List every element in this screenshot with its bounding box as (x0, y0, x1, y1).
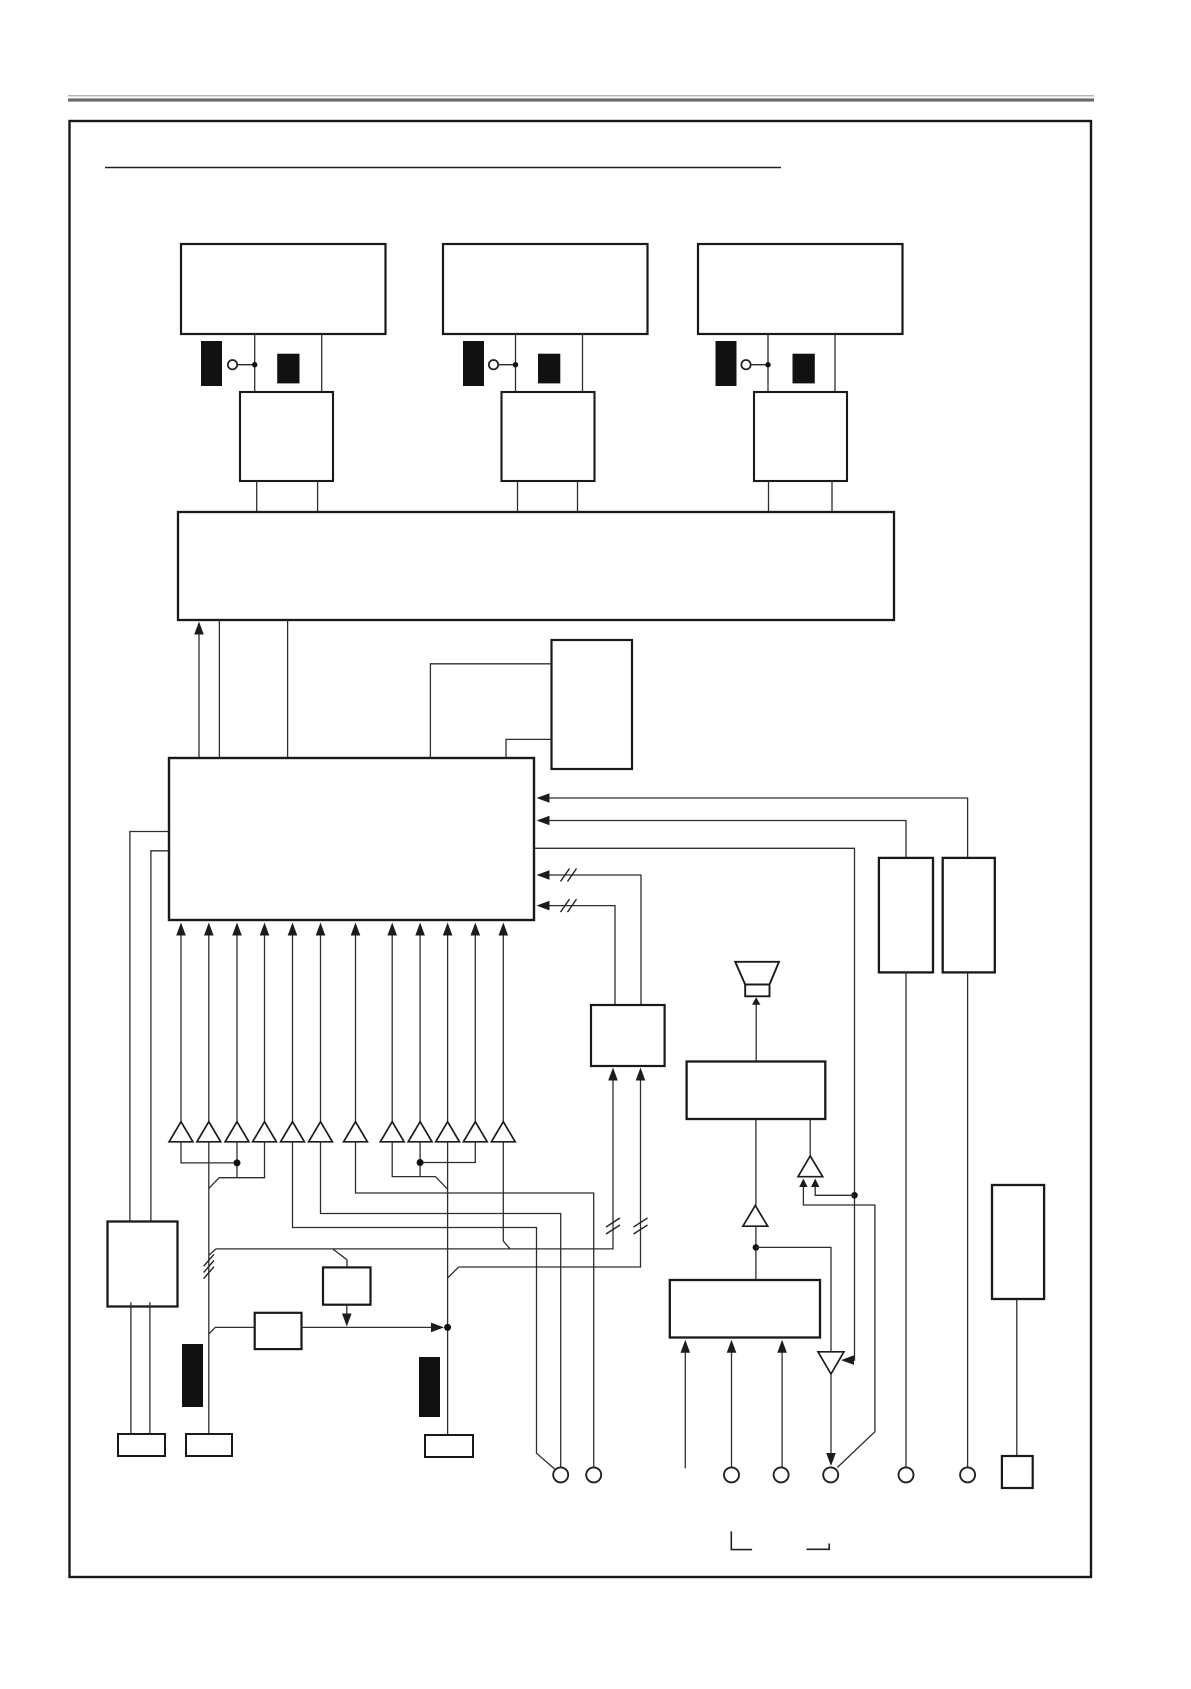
wire row A (T7 to connector circle 2) (356, 1142, 594, 1468)
connector M2 right (filled) (538, 354, 560, 384)
connector circle 7 (960, 1467, 975, 1482)
wire left box down b (149, 1302, 151, 1434)
speaker horn (735, 962, 779, 985)
switch M2 lever wire (498, 364, 513, 366)
wire key column 4 (264, 935, 266, 1122)
header rule thin (68, 95, 1094, 97)
wire T4 jog to T2 column (209, 1142, 265, 1189)
wire V1 down arrow (346, 1305, 348, 1315)
wire M1 mid-right (317, 481, 319, 512)
wire tall A to circle 6 (905, 972, 907, 1467)
wire RB to square terminal (1016, 1299, 1018, 1456)
wire arrow into speaker (755, 1004, 757, 1062)
wire row D (to encoder bottom left arrow) (216, 1081, 613, 1249)
wire amp to buffer U3 (809, 1119, 811, 1156)
switch M3 junction dot (765, 362, 770, 367)
wire T3 down (236, 1142, 238, 1178)
connector circle 5 (823, 1467, 838, 1482)
switch M1 junction dot (252, 362, 257, 367)
block bus (mechanism interface) (178, 512, 894, 620)
connector circle 4 (774, 1467, 789, 1482)
wire B1 input 2 from circle (731, 1353, 733, 1468)
wire bus-ctl b (218, 620, 220, 758)
wire left box down a (130, 1302, 132, 1434)
wire M3 mid-right (831, 481, 833, 512)
buffer T1 (169, 1122, 193, 1142)
bus slash R5 (561, 899, 570, 912)
switch M1 contact circle (228, 360, 237, 369)
wire R2 from tall box A top, arrow into control (548, 821, 906, 858)
bus slash x3 on T2 column (204, 1254, 214, 1266)
wire row D branch into V1 (333, 1249, 347, 1268)
block M1 top (mechanism 1) (181, 244, 386, 334)
connector M1 right (filled) (277, 354, 299, 384)
wire T9 down (419, 1142, 421, 1177)
wire key column 5 (292, 935, 294, 1122)
block left (108, 1222, 178, 1307)
wire K-ctl a (430, 664, 551, 758)
block M1 mid (240, 392, 333, 481)
wire T12 column jog into row D (503, 1142, 510, 1249)
wire amp to buffer U2 (755, 1119, 757, 1205)
U3 input arrow left (799, 1179, 807, 1188)
U3 input arrow right (811, 1179, 819, 1188)
block M3 top (mechanism 3) (698, 244, 903, 334)
wire T1 to junction (181, 1142, 234, 1163)
speaker body (745, 985, 769, 997)
block M2 top (mechanism 2) (443, 244, 648, 334)
wire M2 mid-right (577, 481, 579, 512)
wire M1 top-right (321, 334, 323, 392)
wire K-ctl b (506, 739, 552, 758)
wire junction to inverter U4 (756, 1247, 831, 1351)
buffer T10 (436, 1122, 460, 1142)
connector circle 3 (724, 1467, 739, 1482)
wire row E (to encoder bottom right arrow) (459, 1081, 641, 1268)
buffer T9 (408, 1122, 432, 1142)
inverter U4 (points down) (818, 1352, 844, 1374)
terminal block 3 (425, 1435, 473, 1457)
wire key column 8 (391, 935, 393, 1122)
wire key column 2 (208, 935, 210, 1122)
wire key column 10 (447, 935, 449, 1122)
switch M3 lever wire (751, 364, 766, 366)
wire key column 9 (419, 935, 421, 1122)
wire T2 column down to terminal 2 (208, 1142, 210, 1434)
wire key column 11 (474, 935, 476, 1122)
connector M3 right (filled) (793, 354, 815, 384)
terminal block 2 (186, 1434, 232, 1456)
connector M2 left (filled) (463, 341, 484, 386)
block V2 (255, 1313, 302, 1349)
wire key column 6 (320, 935, 322, 1122)
wire T11 to junction (423, 1142, 475, 1163)
bus slash on row D riser (606, 1218, 620, 1227)
wire row B (T6 to connector circle 1) (321, 1142, 561, 1468)
wire tall B to circle 7 (967, 972, 969, 1467)
wire U3 right input from R3 dot (815, 1187, 854, 1196)
wire B1 input 1 (684, 1353, 686, 1469)
wire ctl-left b (151, 851, 169, 1221)
block tall A (879, 858, 933, 973)
connector M3 left (filled) (716, 341, 737, 386)
wire jog from T2 column into V2 (209, 1327, 255, 1334)
block K (display) (552, 640, 633, 769)
wire M1 top-left (254, 334, 256, 392)
wire V2 output arrow to T10 column (302, 1326, 432, 1328)
wire M3 top-right (834, 334, 836, 392)
connector C (filled) (182, 1344, 203, 1407)
wire row D jog left onto T2 column (209, 1249, 216, 1256)
wire bus-ctl arrow up (198, 634, 200, 758)
title underline (105, 167, 781, 169)
wire M2 top-right (582, 334, 584, 392)
wire M3 top-left (767, 334, 769, 392)
page border (70, 121, 1092, 1577)
connector circle 1 (553, 1467, 568, 1482)
wire row C (T5, diagonal into circle 1) (293, 1142, 555, 1469)
buffer T12 (491, 1122, 515, 1142)
wire key column 1 (180, 935, 182, 1122)
wire R5 bus from encoder, arrow into control (548, 906, 615, 1005)
buffer T7 (344, 1122, 368, 1142)
block B1 (670, 1280, 820, 1338)
wire T8 jog to T10 column (392, 1142, 447, 1189)
block right RB (992, 1185, 1044, 1299)
connector D (filled) (419, 1357, 440, 1417)
block M3 mid (754, 392, 847, 481)
buffer T8 (380, 1122, 404, 1142)
buffer T11 (463, 1122, 487, 1142)
wire M3 mid-left (768, 481, 770, 512)
block M2 mid (502, 392, 595, 481)
connector circle 2 (586, 1467, 601, 1482)
block control (system CPU) (169, 758, 534, 920)
switch M3 contact circle (741, 360, 750, 369)
wire B1 input 3 from circle (781, 1353, 783, 1468)
header rule thick (68, 98, 1094, 101)
bracket right (807, 1544, 830, 1550)
connector M1 left (filled) (201, 341, 222, 386)
junction dot on T10 column (444, 1324, 451, 1331)
wire M1 mid-left (256, 481, 258, 512)
block encoder (591, 1005, 665, 1066)
bus slash on row E riser (634, 1218, 648, 1227)
wire key column 3 (236, 935, 238, 1122)
junction dot group1 (234, 1159, 241, 1166)
buffer T3 (225, 1122, 249, 1142)
bracket left (731, 1531, 752, 1549)
wire R3 control output down to inverter U4 (534, 848, 855, 1360)
connector circle 6 (899, 1467, 914, 1482)
wire key column 12 (502, 935, 504, 1122)
switch M2 junction dot (513, 362, 518, 367)
junction dot below U2 (753, 1244, 760, 1251)
terminal square (1002, 1456, 1033, 1488)
wire T10 column down to terminal 3 (447, 1142, 449, 1434)
wire U3 left input from circle 3 riser (803, 1187, 875, 1468)
bus slash R4 (561, 869, 570, 882)
terminal block 1 (118, 1434, 165, 1456)
wire R1 from tall box B top, arrow into control (548, 798, 968, 858)
junction dot on R3 vertical (851, 1192, 858, 1199)
wire R4 bus from encoder, arrow into control (548, 875, 641, 1005)
wire T10 branch to row E (448, 1267, 459, 1278)
wire U4 arrow down into circle 3 (830, 1374, 832, 1454)
switch M2 contact circle (489, 360, 498, 369)
wire M2 top-left (515, 334, 517, 392)
wire U2 to block B1 (755, 1226, 757, 1280)
block V1 (323, 1267, 371, 1304)
switch M1 lever wire (237, 364, 253, 366)
junction dot group2 (417, 1159, 424, 1166)
wire ctl-left a (130, 832, 169, 1221)
buffer T4 (253, 1122, 277, 1142)
buffer T6 (309, 1122, 333, 1142)
wire bus-ctl c (287, 620, 289, 758)
buffer U3 (two inputs) (798, 1156, 823, 1177)
buffer T5 (281, 1122, 305, 1142)
block tall B (943, 858, 995, 973)
buffer U2 (743, 1205, 768, 1226)
block amp (687, 1062, 826, 1120)
buffer T2 (197, 1122, 221, 1142)
wire key column 7 (355, 935, 357, 1122)
wire M2 mid-left (517, 481, 519, 512)
